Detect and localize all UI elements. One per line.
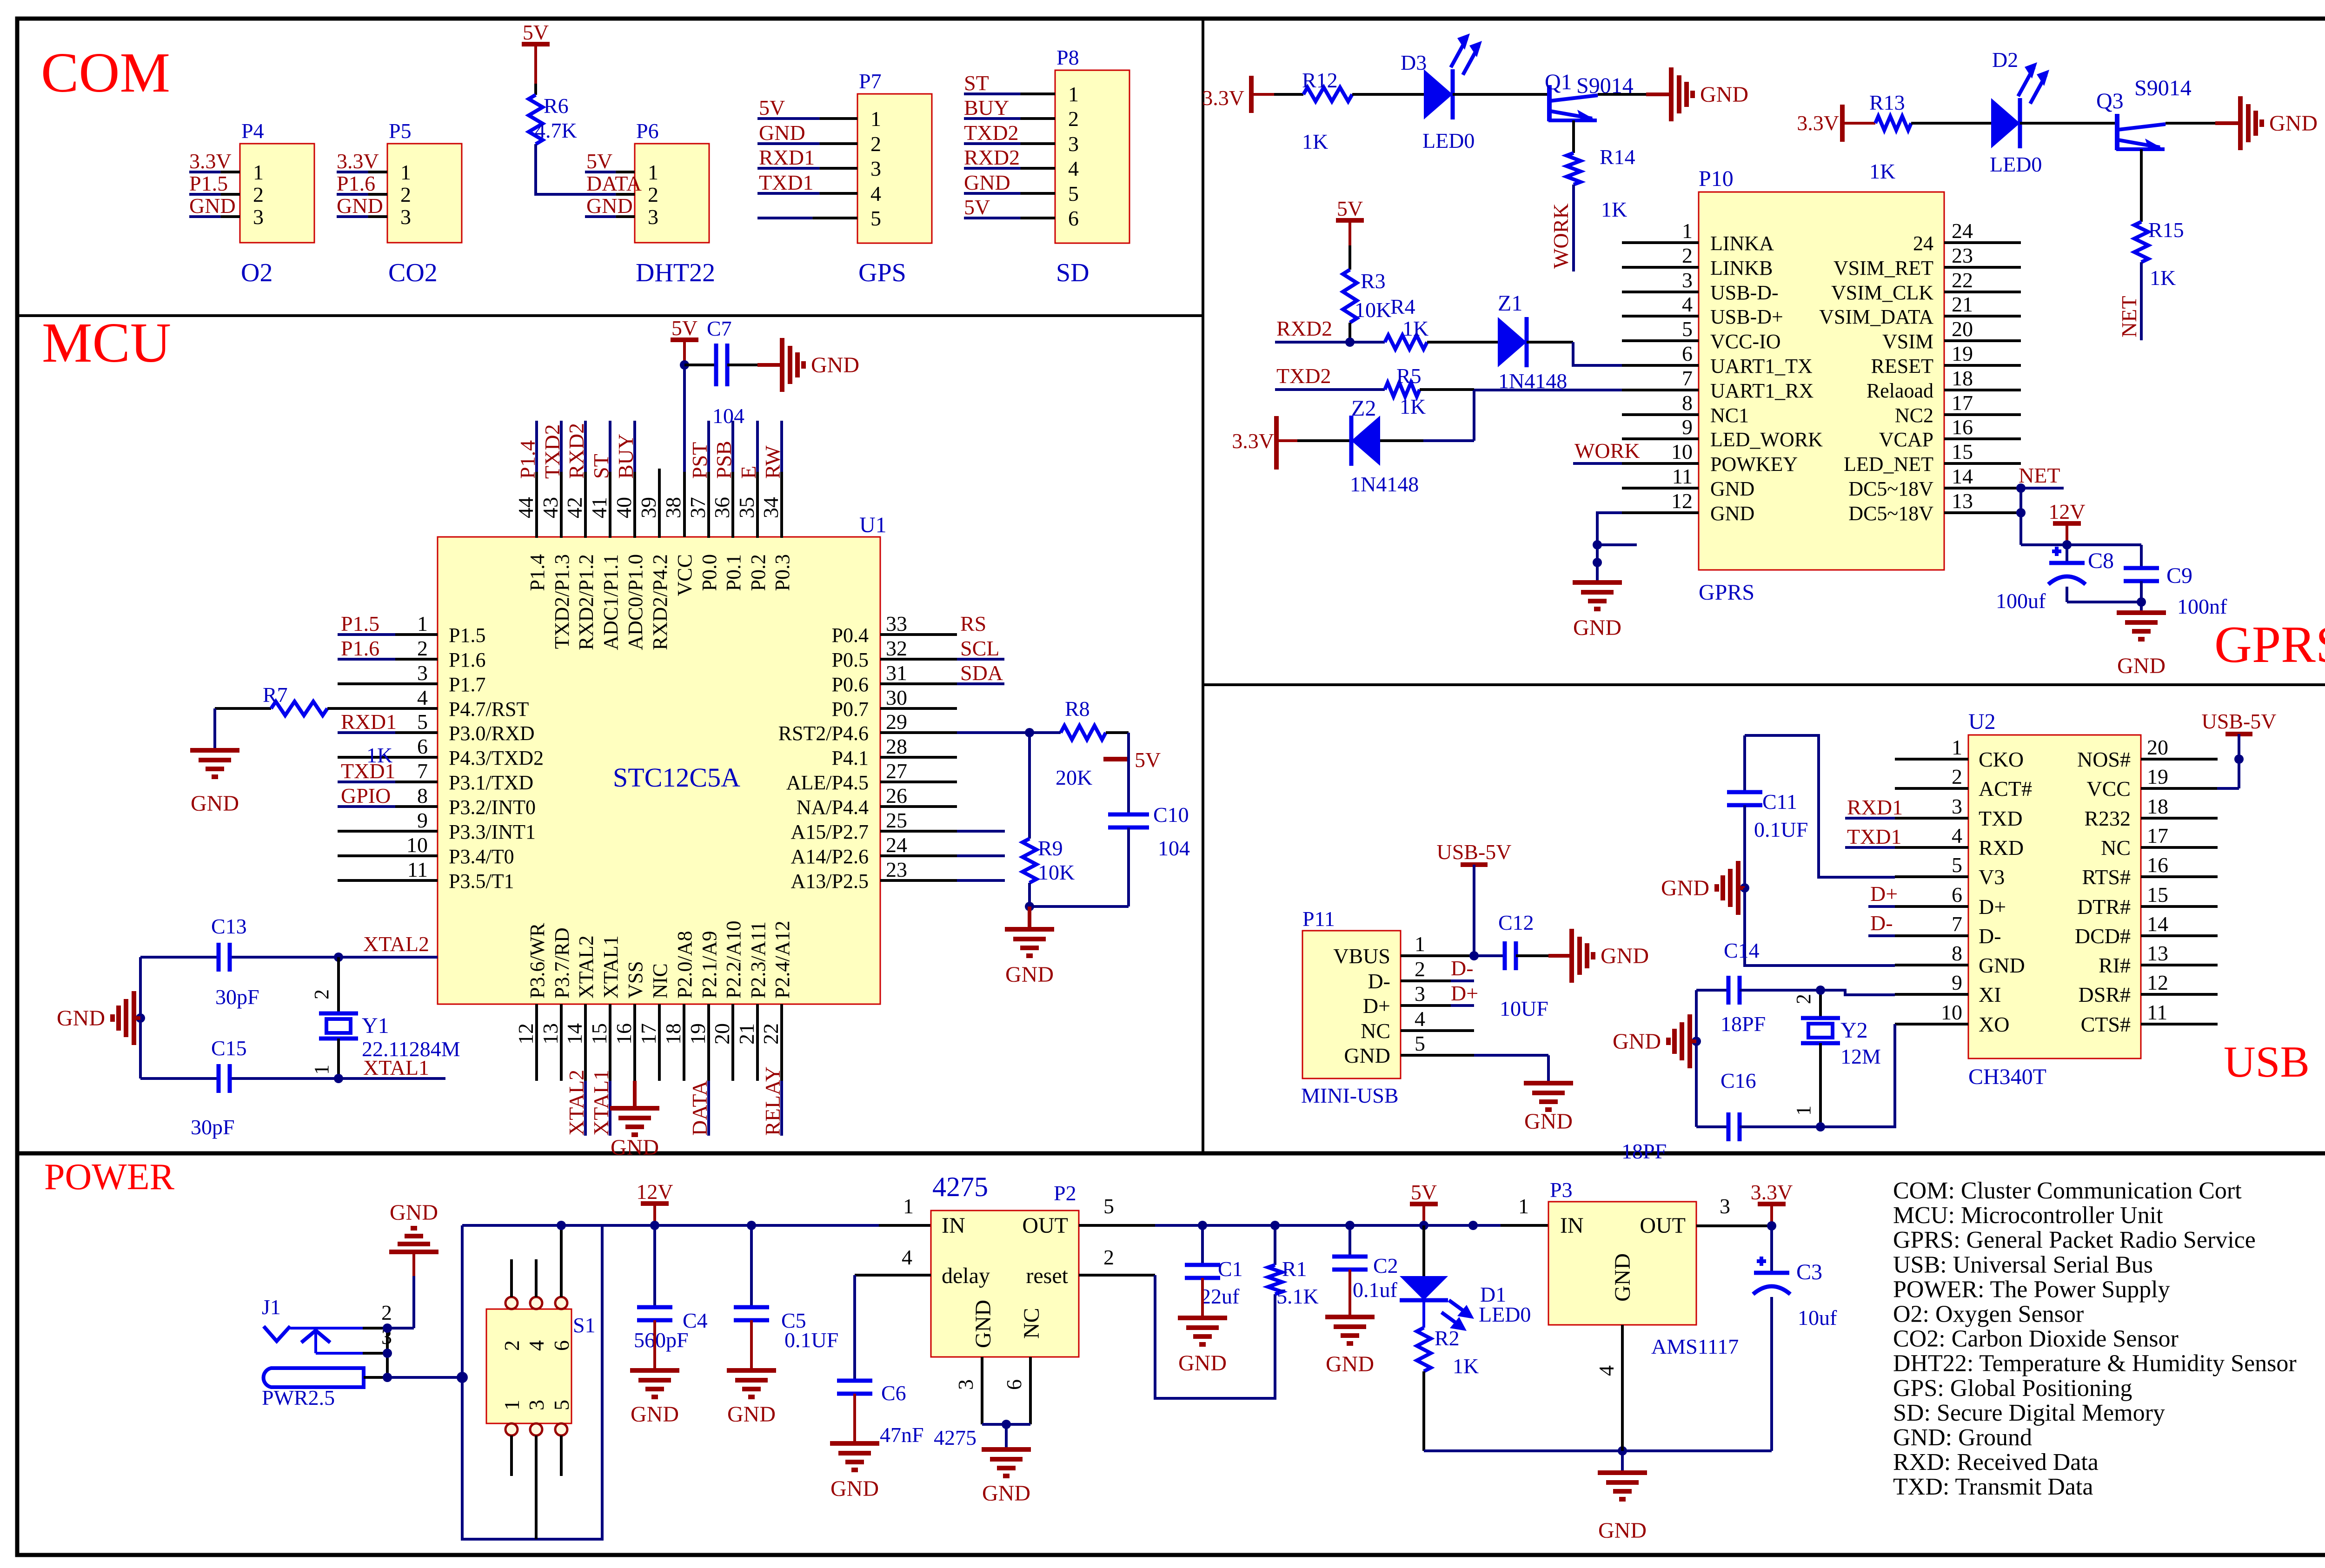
U1 left pin 11 (P3.5/T1) [338, 858, 514, 893]
svg-text:5: 5 [1103, 1194, 1114, 1218]
power 5V (D1) [1410, 1180, 1438, 1225]
P11 label MINI-USB [1301, 1084, 1399, 1107]
svg-text:42: 42 [563, 497, 586, 518]
power USB-5V (U2) [2201, 709, 2276, 788]
S1 pin 4 stub [535, 1259, 538, 1297]
connector P5 [387, 119, 462, 243]
P10 left pin 5 (VCC-IO) [1622, 317, 1781, 353]
svg-text:VBUS: VBUS [1333, 944, 1390, 968]
svg-text:4: 4 [1682, 292, 1693, 316]
svg-text:XTAL1: XTAL1 [589, 1070, 613, 1136]
U1 top pin 44 (P1.4) [514, 421, 549, 591]
net label D+ (U2) [1868, 882, 1898, 906]
svg-text:Z1: Z1 [1498, 291, 1522, 316]
svg-text:DC5~18V: DC5~18V [1848, 502, 1933, 525]
svg-text:GND: GND [1710, 502, 1754, 525]
svg-text:NA/P4.4: NA/P4.4 [797, 796, 869, 819]
svg-text:34: 34 [759, 497, 783, 518]
svg-text:UART1_RX: UART1_RX [1710, 379, 1813, 402]
svg-text:GND: GND [1178, 1351, 1227, 1376]
svg-text:P3.4/T0: P3.4/T0 [449, 845, 514, 868]
svg-text:3.3V: 3.3V [1797, 111, 1839, 135]
svg-text:30: 30 [886, 686, 907, 709]
P10 right pin 18 (Relaoad) [1867, 366, 2021, 402]
svg-text:C1: C1 [1218, 1257, 1243, 1281]
wire S1 loop [462, 1225, 602, 1539]
svg-text:D3: D3 [1401, 51, 1427, 74]
svg-text:9: 9 [1682, 415, 1693, 439]
ground GND (C1) [1178, 1278, 1227, 1376]
svg-text:COM: Cluster Communication Cor: COM: Cluster Communication Cort [1893, 1178, 2242, 1204]
wire R4-Z1 [1427, 341, 1498, 344]
svg-text:8: 8 [1952, 941, 1962, 965]
svg-text:BUY: BUY [614, 434, 638, 479]
junction XTAL1/Y1 [334, 1074, 343, 1083]
connector P7 [857, 69, 932, 243]
svg-text:XTAL2: XTAL2 [565, 1070, 588, 1136]
svg-text:13: 13 [538, 1023, 562, 1045]
led D2 LED0 [1990, 48, 2049, 176]
svg-text:PWR2.5: PWR2.5 [262, 1386, 335, 1409]
svg-text:5: 5 [1415, 1032, 1425, 1055]
svg-text:5: 5 [417, 710, 428, 734]
svg-text:XTAL2: XTAL2 [363, 932, 429, 956]
svg-text:5: 5 [1068, 182, 1079, 205]
svg-text:SCL: SCL [960, 636, 999, 660]
P10 right pin 21 (VSIM_DATA) [1819, 292, 2021, 328]
svg-text:Relaoad: Relaoad [1867, 379, 1933, 402]
svg-text:USB-5V: USB-5V [2201, 709, 2276, 733]
U2 left pin 7 (D-) [1895, 912, 2001, 948]
connector P8 [1055, 46, 1129, 243]
U1 right pin 33 (P0.4) [832, 612, 987, 647]
capacitor C16 18PF [1621, 1069, 1820, 1163]
wire XO [1820, 1024, 1895, 1127]
P8 pin 5 wire net GND [964, 171, 1055, 194]
svg-text:RTS#: RTS# [2082, 865, 2131, 889]
svg-text:1K: 1K [1601, 198, 1627, 221]
svg-text:USB: Universal Serial Bus: USB: Universal Serial Bus [1893, 1251, 2153, 1278]
svg-text:P3.2/INT0: P3.2/INT0 [449, 796, 536, 819]
U1 top pin 38 (VCC) [661, 497, 696, 596]
svg-text:18: 18 [661, 1023, 685, 1045]
svg-text:DCD#: DCD# [2075, 924, 2131, 948]
svg-text:7: 7 [1682, 366, 1693, 390]
svg-text:18: 18 [2147, 794, 2168, 818]
U1 right pin 32 (P0.5) [832, 636, 1004, 671]
svg-text:C11: C11 [1762, 790, 1797, 814]
svg-text:3: 3 [253, 205, 264, 229]
svg-text:SD: SD [1056, 258, 1089, 287]
P2 pin 3 [954, 1357, 982, 1424]
U2 left pin 9 (XI) [1895, 971, 2001, 1006]
svg-text:GND: GND [2117, 654, 2166, 678]
svg-text:2: 2 [253, 183, 264, 206]
ground GND (P11) [1524, 1083, 1573, 1134]
svg-text:GPIO: GPIO [341, 784, 391, 807]
svg-text:C6: C6 [881, 1381, 906, 1405]
svg-text:9: 9 [417, 808, 428, 832]
svg-text:44: 44 [514, 497, 538, 518]
svg-text:28: 28 [886, 734, 907, 758]
resistor R3 10K [1343, 269, 1391, 342]
svg-text:1: 1 [1682, 219, 1693, 243]
svg-text:1: 1 [1792, 1105, 1815, 1116]
P10 left pin 8 (NC1) [1622, 391, 1749, 427]
P10 left pin 4 (USB-D+) [1622, 292, 1783, 328]
junction C8 top [2062, 540, 2072, 549]
svg-text:11: 11 [407, 858, 428, 881]
svg-text:10: 10 [1671, 440, 1693, 463]
module P10 GPRS [1699, 166, 1944, 605]
U2 left pin 2 (ACT#) [1895, 765, 2032, 801]
P10 left pin 9 (LED_WORK) [1622, 415, 1823, 451]
svg-text:USB: USB [2224, 1037, 2310, 1086]
svg-text:R7: R7 [263, 683, 288, 707]
svg-text:1: 1 [1068, 82, 1079, 106]
svg-text:U2: U2 [1968, 709, 1996, 734]
wire TXD2 [1275, 388, 1385, 391]
svg-text:GND: GND [1710, 477, 1754, 500]
svg-text:VCC: VCC [673, 554, 696, 596]
svg-text:USB-D+: USB-D+ [1710, 305, 1783, 328]
svg-text:17: 17 [637, 1023, 660, 1045]
svg-text:4: 4 [1952, 824, 1962, 847]
svg-text:40: 40 [612, 497, 636, 518]
mcu U1 STC12C5A [438, 513, 887, 1004]
svg-text:Q1: Q1 [1545, 70, 1572, 94]
svg-text:26: 26 [886, 784, 907, 807]
svg-text:P1.5: P1.5 [189, 172, 228, 195]
net label TXD2 [1276, 364, 1331, 388]
svg-text:2: 2 [648, 183, 658, 206]
capacitor C12 10UF [1474, 911, 1548, 1020]
power 3.3V (C3) [1751, 1180, 1793, 1226]
svg-text:1: 1 [870, 107, 881, 131]
svg-text:5V: 5V [759, 96, 785, 119]
svg-text:VSIM: VSIM [1882, 330, 1933, 353]
junction P10 gnd 2 [1593, 558, 1602, 567]
svg-text:3.3V: 3.3V [1202, 86, 1244, 110]
svg-text:5V: 5V [964, 195, 990, 219]
U1 right pin 24 (A14/P2.6) [791, 833, 1005, 868]
svg-text:12: 12 [514, 1023, 538, 1045]
U2 right pin 14 (DCD#) [2075, 912, 2218, 948]
svg-text:P7: P7 [859, 69, 882, 93]
svg-text:DHT22: DHT22 [636, 258, 715, 287]
svg-text:GND: GND [631, 1402, 679, 1427]
wire J1 to S1 rail [387, 1376, 462, 1379]
ground GND (C4) [630, 1320, 679, 1427]
svg-text:32: 32 [886, 636, 907, 660]
svg-text:P0.0: P0.0 [698, 554, 721, 591]
svg-text:Y1: Y1 [362, 1013, 389, 1038]
svg-text:30pF: 30pF [191, 1115, 235, 1139]
svg-text:RS: RS [960, 612, 986, 635]
svg-text:OUT: OUT [1022, 1213, 1068, 1238]
svg-text:RXD2: RXD2 [565, 423, 588, 479]
ground GND (crystal) [57, 991, 140, 1045]
U1 right pin 31 (P0.6) [832, 661, 1004, 696]
svg-text:5: 5 [550, 1400, 573, 1410]
svg-text:CTS#: CTS# [2081, 1012, 2131, 1036]
svg-text:C16: C16 [1720, 1069, 1756, 1092]
svg-text:P2: P2 [1054, 1181, 1076, 1205]
net NET (R15) [2117, 262, 2141, 340]
svg-text:LINKA: LINKA [1710, 232, 1774, 255]
ground GND (J1 pin2) [387, 1200, 438, 1328]
svg-text:P0.1: P0.1 [722, 554, 745, 591]
svg-text:P0.3: P0.3 [771, 554, 794, 591]
svg-text:J1: J1 [262, 1295, 281, 1319]
resistor R15 1K [2134, 149, 2184, 290]
svg-text:GPRS: General Packet Radio Ser: GPRS: General Packet Radio Service [1893, 1227, 2256, 1253]
svg-text:SD: Secure Digital Memory: SD: Secure Digital Memory [1893, 1400, 2165, 1426]
svg-text:GPS: GPS [858, 258, 906, 287]
svg-text:GND: GND [1573, 615, 1621, 640]
svg-text:1K: 1K [1302, 130, 1328, 153]
svg-text:R12: R12 [1302, 68, 1338, 92]
svg-text:4: 4 [525, 1340, 548, 1351]
svg-text:14: 14 [1952, 464, 1973, 488]
svg-text:GND: GND [1344, 1044, 1390, 1067]
P11 pin 2 (D-) [1401, 957, 1474, 981]
S1 pin 6 stub [560, 1225, 563, 1297]
P7 pin 1 wire net 5V [757, 96, 857, 119]
svg-text:2: 2 [1792, 994, 1815, 1004]
svg-text:560pF: 560pF [634, 1328, 689, 1352]
wire XI [1820, 990, 1895, 995]
P8 pin 4 wire net RXD2 [964, 146, 1055, 169]
svg-text:3: 3 [400, 205, 411, 229]
capacitor C6 47nF [837, 1275, 924, 1447]
svg-text:RXD2: RXD2 [964, 146, 1020, 169]
svg-text:20: 20 [2147, 735, 2168, 759]
svg-text:RXD: Received Data: RXD: Received Data [1893, 1449, 2099, 1475]
svg-text:29: 29 [886, 710, 907, 734]
svg-text:STC12C5A: STC12C5A [613, 762, 740, 793]
svg-text:ACT#: ACT# [1979, 777, 2032, 801]
ground GND (P3) [1598, 1451, 1647, 1543]
svg-text:P11: P11 [1302, 907, 1335, 931]
svg-text:3.3V: 3.3V [189, 149, 232, 173]
svg-text:7: 7 [417, 759, 428, 783]
svg-text:3: 3 [1952, 794, 1962, 818]
U2 right pin 17 (NC) [2101, 824, 2218, 860]
P10 left pin 7 (UART1_RX) [1622, 366, 1813, 402]
svg-text:22: 22 [1952, 268, 1973, 292]
power 5V (R8) [1103, 748, 1161, 772]
svg-text:21: 21 [735, 1023, 758, 1045]
connector P6 [635, 119, 709, 243]
svg-text:1: 1 [500, 1400, 524, 1410]
ground GND (Q3) [2240, 96, 2318, 150]
P10 right pin 23 (VSIM_RET) [1833, 244, 2021, 279]
svg-text:1K: 1K [1453, 1354, 1479, 1378]
net label D+ (P11) [1451, 981, 1478, 1006]
wire C8/C9 bottom [2067, 601, 2141, 603]
U1 bottom pin 21 (P2.3/A11) [735, 921, 770, 1081]
svg-text:RESET: RESET [1871, 355, 1934, 377]
J1 pin 1 [364, 1376, 387, 1379]
ground GND (C6) [830, 1394, 879, 1501]
svg-text:GND: GND [2269, 111, 2318, 136]
wire R6 to DATA [536, 144, 585, 194]
led D1 LED0 [1400, 1225, 1531, 1331]
P3 pin 4 [1594, 1325, 1622, 1451]
svg-text:GND: GND [1700, 82, 1748, 107]
svg-text:GND: GND [1326, 1352, 1374, 1376]
svg-text:4: 4 [1415, 1007, 1425, 1031]
svg-text:GND: GND [57, 1006, 105, 1031]
svg-text:SDA: SDA [960, 661, 1003, 685]
P10 right pin 15 (LED_NET) [1844, 440, 2021, 476]
svg-text:MINI-USB: MINI-USB [1301, 1084, 1399, 1107]
junction left rail [136, 1013, 145, 1023]
P5 pin 2 wire net P1.6 [337, 172, 387, 195]
svg-text:GND: GND [727, 1402, 776, 1427]
svg-text:P3.0/RXD: P3.0/RXD [449, 722, 535, 745]
svg-text:17: 17 [2147, 824, 2168, 847]
power 3.3V (R12) [1202, 76, 1274, 113]
svg-text:RXD2/P4.2: RXD2/P4.2 [649, 554, 671, 650]
svg-text:USB-D-: USB-D- [1710, 281, 1779, 304]
svg-text:XTAL1: XTAL1 [599, 935, 622, 999]
svg-text:D+: D+ [1451, 981, 1478, 1005]
junction 3.3V/C3 [1767, 1221, 1776, 1231]
P6 pin 1 wire net 5V [585, 149, 635, 173]
svg-text:WORK: WORK [1574, 439, 1640, 463]
section title COM [41, 41, 170, 104]
junction P3 gnd rail [1618, 1446, 1627, 1456]
svg-text:1: 1 [1415, 932, 1425, 956]
section title GPRS [2214, 616, 2325, 674]
svg-text:16: 16 [1952, 415, 1973, 439]
capacitor C8 100uf [1996, 545, 2114, 613]
svg-text:2: 2 [1415, 957, 1425, 981]
svg-text:1: 1 [400, 160, 411, 184]
svg-text:DHT22: Temperature & Humidity: DHT22: Temperature & Humidity Sensor [1893, 1350, 2297, 1377]
svg-text:39: 39 [637, 497, 660, 518]
U1 bottom pin 13 (P3.7/RD) [538, 927, 573, 1081]
svg-text:41: 41 [587, 497, 611, 518]
svg-text:20: 20 [710, 1023, 734, 1045]
svg-text:NOS#: NOS# [2077, 748, 2131, 771]
net NET (pin14) [2019, 463, 2064, 488]
svg-text:19: 19 [2147, 765, 2168, 788]
U1 left pin 10 (P3.4/T0) [338, 833, 514, 868]
svg-text:P1.5: P1.5 [449, 624, 485, 647]
svg-text:VCC: VCC [2086, 777, 2131, 801]
svg-text:GND: GND [1610, 1253, 1635, 1302]
U2 left pin 8 (GND) [1895, 941, 2025, 977]
U1 bottom pin 17 (NIC) [637, 963, 671, 1081]
svg-text:4: 4 [1068, 157, 1079, 180]
wire VCC pin38 [683, 365, 686, 537]
U1 top pin 35 (P0.2) [735, 421, 770, 591]
svg-text:27: 27 [886, 759, 907, 783]
svg-text:S9014: S9014 [2134, 76, 2192, 100]
svg-text:D-: D- [1870, 911, 1893, 935]
svg-text:0.1UF: 0.1UF [784, 1328, 838, 1352]
S1 pin 1 stub [510, 1436, 513, 1476]
svg-text:NC: NC [2101, 836, 2131, 860]
svg-text:Y2: Y2 [1840, 1018, 1868, 1043]
svg-text:A13/P2.5: A13/P2.5 [791, 870, 869, 893]
P10 left pin 11 (GND) [1622, 464, 1754, 500]
svg-text:CKO: CKO [1979, 748, 2024, 771]
svg-text:6: 6 [550, 1340, 573, 1351]
P8 pin 3 wire net TXD2 [964, 121, 1055, 145]
svg-text:24: 24 [1913, 232, 1933, 255]
svg-text:CH340T: CH340T [1968, 1065, 2046, 1089]
svg-text:LED_WORK: LED_WORK [1710, 428, 1823, 451]
svg-text:XI: XI [1979, 983, 2001, 1006]
P7 pin 5 wire [757, 217, 857, 219]
ic U2 CH340T [1968, 709, 2141, 1089]
svg-text:5V: 5V [1411, 1180, 1437, 1204]
svg-text:RXD2: RXD2 [1276, 317, 1332, 340]
svg-text:P3.5/T1: P3.5/T1 [449, 870, 514, 893]
wire D3-Q1 [1453, 93, 1549, 96]
svg-text:A15/P2.7: A15/P2.7 [791, 820, 869, 843]
svg-text:10K: 10K [1038, 860, 1075, 884]
junction rail x3168 [1468, 1221, 1478, 1230]
svg-text:3: 3 [1415, 982, 1425, 1006]
junction J1 c [383, 1373, 392, 1382]
svg-text:3.3V: 3.3V [1232, 429, 1274, 453]
svg-text:5: 5 [1952, 853, 1962, 877]
U2 right pin 18 (R232) [2084, 794, 2218, 830]
svg-text:GND: GND [1524, 1109, 1573, 1134]
wire P2 gnd tie [982, 1423, 1030, 1426]
svg-text:VSIM_RET: VSIM_RET [1833, 257, 1933, 279]
transistor Q3 S9014 [2096, 76, 2192, 150]
P6 label DHT22 [636, 258, 715, 287]
wire P11 pin5 gnd [1474, 1055, 1548, 1083]
svg-text:P3.3/INT1: P3.3/INT1 [449, 820, 536, 843]
svg-text:R1: R1 [1282, 1257, 1307, 1281]
junction C5 [747, 1221, 756, 1230]
svg-text:20: 20 [1952, 317, 1973, 341]
junction XTAL2/Y1 [334, 953, 343, 962]
svg-text:GND: GND [1661, 876, 1709, 900]
net label RXD1 (U2) [1845, 795, 1903, 819]
svg-text:O2: O2 [241, 258, 272, 287]
svg-text:12V: 12V [2048, 500, 2085, 523]
svg-text:23: 23 [886, 858, 907, 881]
P8 label SD [1056, 258, 1089, 287]
svg-text:15: 15 [1952, 440, 1973, 463]
U1 right pin 29 (RST2/P4.6) [778, 710, 1030, 745]
svg-text:P1.4: P1.4 [516, 440, 539, 479]
P10 right pin 17 (NC2) [1895, 391, 2021, 427]
U1 right pin 28 (P4.1) [832, 734, 957, 769]
P4 pin 3 wire net GND [189, 194, 240, 218]
svg-text:R3: R3 [1361, 269, 1386, 293]
svg-text:18: 18 [1952, 366, 1973, 390]
svg-text:RELAY: RELAY [761, 1066, 784, 1136]
svg-text:RST2/P4.6: RST2/P4.6 [778, 722, 869, 745]
svg-text:1: 1 [417, 612, 428, 635]
svg-text:8: 8 [417, 784, 428, 807]
svg-text:5V: 5V [1337, 197, 1363, 220]
U1 left pin 3 (P1.7) [338, 661, 485, 696]
P2 pin 1 [903, 1194, 914, 1218]
svg-text:POWER: The Power Supply: POWER: The Power Supply [1893, 1276, 2170, 1303]
svg-text:GND: GND [1613, 1029, 1661, 1054]
svg-text:1: 1 [648, 160, 658, 184]
